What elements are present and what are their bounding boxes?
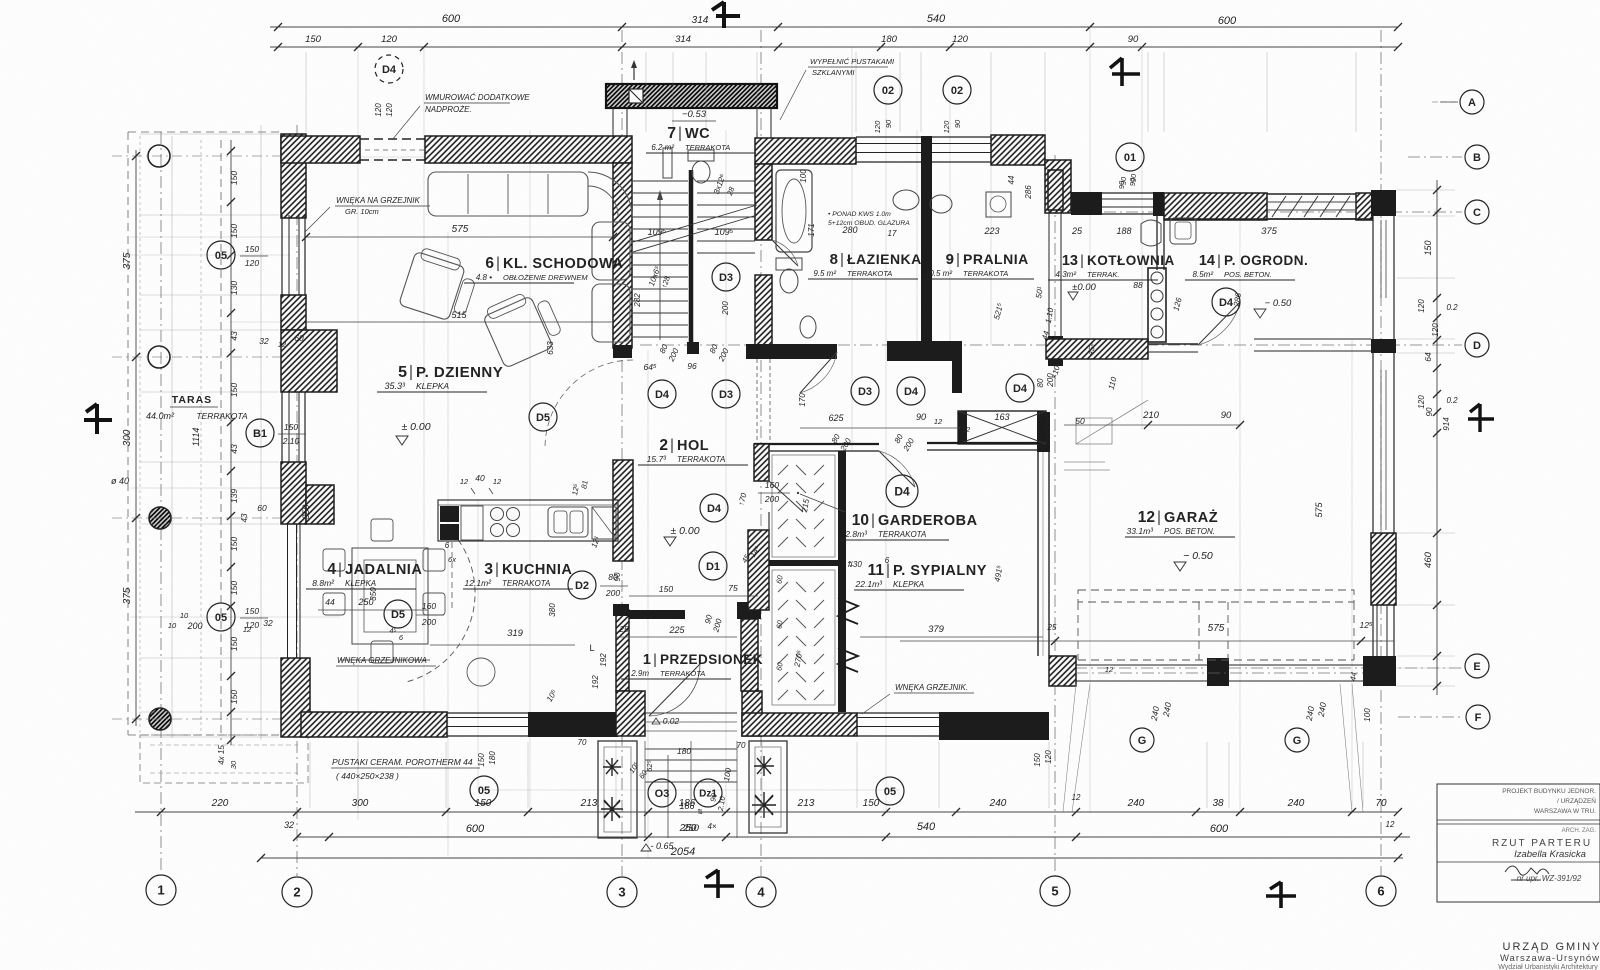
corridor-wardrobe wall east bbox=[927, 442, 1037, 444]
staircase break line bbox=[633, 205, 757, 242]
closet east wall black bbox=[838, 451, 846, 712]
grid bubble F bbox=[1466, 705, 1490, 729]
garage dashed canal bbox=[1078, 590, 1354, 602]
left wall segment bbox=[281, 295, 306, 330]
grid axis line 4 bbox=[760, 30, 762, 876]
pillar between windows bbox=[921, 136, 932, 164]
section mark 1 right bbox=[1468, 404, 1494, 432]
sofa top wall bbox=[428, 172, 588, 216]
left 05 circle lower bbox=[207, 603, 235, 631]
armchair 2 bbox=[480, 285, 566, 368]
wc toilet bbox=[688, 150, 714, 161]
wc radiator bbox=[663, 148, 672, 178]
boiler-garden dividing wall bbox=[1156, 216, 1158, 270]
closet zigzag rod 2 bbox=[838, 648, 858, 672]
kitchen black cabinets bbox=[440, 506, 459, 522]
left wall window 1 bbox=[288, 215, 290, 295]
garden room top wall bbox=[1164, 193, 1267, 220]
tag D3 hall3 bbox=[851, 377, 879, 405]
garage bottom wall west jog bbox=[1049, 656, 1076, 686]
grid axis line F bbox=[1398, 716, 1462, 718]
grid bubble E bbox=[1465, 654, 1489, 678]
living-dining opening arc bbox=[406, 532, 475, 682]
grid axis line A bbox=[1432, 101, 1458, 103]
radiator niche label line dining bbox=[340, 659, 430, 661]
staircase treads bbox=[633, 180, 688, 182]
extension stubs bottom bbox=[309, 742, 311, 808]
boiler room top window bbox=[1102, 198, 1155, 200]
bottom wall kitchen black bbox=[528, 712, 618, 737]
wall top band left bbox=[281, 136, 360, 163]
right wall faces bbox=[1372, 216, 1374, 656]
corner step to boiler room bbox=[1045, 160, 1071, 213]
tag D3 corridor bbox=[712, 263, 740, 291]
tag D4 dashed top bbox=[375, 55, 403, 83]
vestibule top wall bbox=[629, 610, 685, 619]
section mark 1 left bbox=[84, 404, 112, 434]
left outer dimension chain bbox=[135, 150, 137, 726]
extension stubs top bbox=[305, 52, 307, 132]
garage bottom wall 2 bbox=[1229, 664, 1363, 666]
garden room top window bbox=[1267, 193, 1356, 195]
tag D4 hall1 bbox=[648, 380, 676, 408]
garage bottom wall 1 bbox=[1076, 664, 1207, 666]
garage bottom pillar bbox=[1207, 658, 1229, 686]
wardrobe door D4 swing bbox=[879, 451, 915, 487]
grid bubble 2 bbox=[282, 877, 312, 907]
window top dashed (wmurowac) bbox=[360, 138, 425, 140]
grid bubble A bbox=[1460, 90, 1484, 114]
extension lines vertical bbox=[357, 47, 359, 820]
hall door D3 swing bbox=[800, 352, 837, 393]
sink laundry bbox=[930, 195, 952, 213]
tag Dz1 entrance bbox=[694, 779, 722, 807]
right dimension chain bbox=[1436, 180, 1438, 695]
dimension row top 1 bbox=[270, 26, 1398, 28]
chimney duct box with X bbox=[958, 411, 1046, 444]
tag D3 hall2 bbox=[712, 380, 740, 408]
dimension row bottom C bbox=[261, 857, 1403, 859]
steps arrow bbox=[667, 755, 669, 838]
bottom window jadalnia bbox=[447, 717, 528, 719]
dimension row bottom B bbox=[297, 836, 1410, 838]
grid bubble D bbox=[1465, 333, 1489, 357]
dim hall 675 90 bbox=[800, 427, 960, 429]
section mark bottom middle bbox=[704, 870, 734, 898]
laundry wall jog down bbox=[952, 341, 962, 393]
boiler door swing bbox=[1198, 302, 1240, 345]
wall bottom-left corner bbox=[281, 658, 310, 737]
grid bubble 6 bbox=[1366, 876, 1396, 906]
dining chairs bbox=[323, 549, 345, 571]
closet door swing bbox=[769, 481, 803, 512]
grid bubble 1 bbox=[146, 875, 176, 905]
title block frame bbox=[1437, 784, 1600, 902]
corridor dividing wall bbox=[689, 170, 694, 348]
right wall window 1 bbox=[1380, 220, 1382, 298]
armchair 1 bbox=[399, 246, 481, 325]
kitchen counter bbox=[438, 500, 618, 541]
bathroom left wall upper bbox=[755, 164, 772, 240]
wc right wall below chimney bbox=[756, 108, 758, 138]
left wall pier 1 bbox=[281, 330, 337, 392]
tag D5 living bbox=[529, 403, 557, 431]
left wall radiator niche bbox=[287, 524, 289, 658]
chimney block top bbox=[606, 84, 777, 108]
boiler flue stack bbox=[1148, 268, 1166, 342]
entrance steps bbox=[645, 748, 737, 750]
garden room top wall hatch strokes bbox=[1272, 196, 1286, 217]
bedroom bottom radiator niche bbox=[857, 717, 939, 719]
dimension row top 2 bbox=[270, 46, 1398, 48]
tag D1 bbox=[699, 552, 727, 580]
grid axis line D bbox=[640, 344, 1462, 346]
tag D5 dining bbox=[384, 600, 412, 628]
bedroom bottom wall black bbox=[939, 712, 1049, 740]
boiler room top wall black bbox=[1071, 192, 1102, 215]
section mark 4 top bbox=[712, 2, 740, 28]
dim living 575 bbox=[306, 236, 613, 238]
grid axis line E bbox=[1075, 667, 1462, 669]
garage top wall bbox=[1254, 338, 1371, 340]
sofa right side bbox=[592, 222, 630, 280]
entrance left pier bbox=[616, 691, 645, 736]
tag D4 hall4 bbox=[897, 377, 925, 405]
kitchen sink bbox=[548, 507, 588, 537]
bathroom door opening bbox=[772, 240, 798, 266]
vestibule left wall bbox=[616, 610, 629, 691]
tag 02 right bbox=[943, 76, 971, 104]
entrance door swing bbox=[649, 664, 700, 716]
kitchen fridge bbox=[592, 507, 616, 539]
tag 01 bbox=[1116, 143, 1144, 171]
dim garage bbox=[900, 640, 1394, 642]
top-right corner column bbox=[1371, 190, 1396, 216]
signature scribble bbox=[1505, 866, 1549, 880]
laundry right wall bbox=[1048, 170, 1050, 340]
scan noise overlay bbox=[0, 0, 1, 1]
closet divider bbox=[769, 560, 839, 566]
tag 05 below entrance right bbox=[876, 777, 904, 805]
bath-laundry dividing wall bbox=[921, 164, 932, 354]
grid axis line B bbox=[1408, 156, 1462, 158]
corridor-wardrobe wall west bbox=[754, 443, 879, 445]
grid axis line 6 bbox=[1380, 30, 1382, 876]
staircase walk line arrow bbox=[659, 195, 661, 340]
sofa corner arc bbox=[588, 172, 632, 216]
garden room sink bbox=[1170, 218, 1196, 244]
tag 02 left bbox=[874, 76, 902, 104]
terrace bottom dashed box bbox=[140, 735, 308, 783]
left wall window 2 bbox=[288, 392, 290, 462]
tag D4 closet door bbox=[886, 475, 918, 507]
garage right wall hatched bbox=[1371, 533, 1396, 605]
boiler room wc bbox=[1141, 220, 1161, 246]
terrace column 2 bbox=[148, 346, 170, 368]
section mark 4 upper right bbox=[1110, 58, 1140, 86]
terrace column 3 hatched bbox=[149, 507, 171, 529]
garage left wall bbox=[1037, 452, 1039, 656]
top window pralnia bbox=[932, 143, 991, 145]
closet west wall upper bbox=[754, 444, 769, 481]
grid axis line 3 bbox=[621, 30, 623, 876]
tag D4 garden bbox=[1212, 288, 1240, 316]
section mark bottom right bbox=[1266, 882, 1296, 908]
garage axis line bbox=[1076, 672, 1363, 674]
arrow above chimney bbox=[633, 64, 635, 80]
wall top-left corner bbox=[281, 134, 306, 218]
corridor wall cap bbox=[687, 342, 699, 354]
grid bubble G garage 2 bbox=[1285, 728, 1309, 752]
grid bubble 4 bbox=[746, 877, 776, 907]
laundry right wall corner bbox=[1048, 336, 1063, 366]
garage right window bbox=[1380, 370, 1382, 530]
grid bubble B bbox=[1465, 145, 1489, 169]
boiler room top corner bbox=[1153, 192, 1164, 216]
entrance planter left bbox=[598, 741, 637, 838]
bathroom left wall lower bbox=[755, 275, 772, 354]
terrace dashed edge bbox=[127, 132, 129, 735]
grid bubble G garage 1 bbox=[1130, 728, 1154, 752]
vestibule door wall jog bbox=[613, 604, 629, 616]
terrace column 4 hatched bbox=[149, 708, 171, 730]
extension stubs right bbox=[1397, 189, 1455, 191]
wc left wall below chimney bbox=[612, 108, 614, 138]
kitchen table circle bbox=[467, 658, 495, 686]
wall top band bathroom bbox=[755, 138, 856, 164]
living-hall opening arc bbox=[545, 360, 633, 448]
left 05 circle upper bbox=[207, 241, 235, 269]
left wall pier 2 step bbox=[306, 485, 334, 524]
chimney vent square bbox=[629, 89, 643, 103]
tag O3 entrance bbox=[648, 779, 676, 807]
grid bubble C bbox=[1465, 200, 1489, 224]
dining table bbox=[352, 548, 428, 644]
grid bubble 5 bbox=[1040, 876, 1070, 906]
kitchen-hall wall bbox=[613, 460, 633, 561]
closet compartment lines bbox=[768, 452, 770, 481]
garden room top wall inner edge bbox=[1164, 218, 1372, 220]
closet zigzag rod 1 bbox=[838, 598, 858, 624]
vestibule top-right corner bbox=[737, 602, 761, 619]
laundry bottom wall bbox=[887, 341, 960, 361]
extension lines horizontal bbox=[130, 236, 630, 238]
grid axis line 5 bbox=[1054, 155, 1056, 876]
dim living 515 bbox=[306, 321, 613, 323]
bathroom bottom wall bbox=[746, 344, 837, 359]
boiler room bottom wall bbox=[1046, 339, 1148, 359]
washbasin bathroom bbox=[893, 190, 919, 210]
tag D4 hall5 bbox=[1006, 374, 1034, 402]
staircase return treads bbox=[697, 180, 755, 182]
bidet bbox=[800, 316, 816, 338]
wall top band pralnia right bbox=[991, 135, 1045, 165]
staircase wall end cap bbox=[613, 345, 632, 358]
planter left plant doodle bbox=[603, 758, 621, 776]
garage diagonal guides bbox=[1063, 684, 1076, 812]
terrace horizontal axis dashes bbox=[112, 155, 285, 157]
terrace inner lines bbox=[139, 136, 141, 738]
corridor wall continuation bbox=[756, 359, 758, 444]
bathtub bbox=[776, 170, 812, 252]
entrance planter right bbox=[749, 741, 787, 833]
grid axis line C bbox=[1060, 211, 1462, 213]
boiler room boiler lines bbox=[1064, 461, 1105, 463]
grid bubble 3 bbox=[607, 877, 637, 907]
garderoba leader line bbox=[800, 494, 845, 512]
bottom band right of entrance bbox=[742, 691, 762, 736]
grid axis line 1 bbox=[160, 132, 162, 874]
wall bottom band left bbox=[301, 712, 447, 737]
wall top band to staircase bbox=[425, 136, 632, 163]
vestibule right wall bbox=[741, 619, 758, 691]
right wall block at D bbox=[1371, 339, 1396, 353]
extension stubs left bbox=[140, 133, 279, 135]
garage right wall lower bbox=[1376, 605, 1378, 656]
staircase right wall bbox=[613, 163, 632, 348]
toilet bathroom bbox=[776, 258, 802, 270]
tag 05 below entrance left bbox=[470, 776, 498, 804]
tag D4 corridor2 bbox=[700, 494, 728, 522]
entrance threshold bbox=[645, 712, 737, 714]
closet west wall lower bbox=[748, 530, 769, 610]
left inner dimension chain bbox=[230, 140, 232, 745]
garage bottom-right corner bbox=[1363, 656, 1396, 686]
grid axis line 2 bbox=[296, 125, 298, 876]
dimension row bottom A bbox=[135, 811, 1398, 813]
planter right plant doodle bbox=[754, 756, 774, 776]
washer laundry bbox=[986, 192, 1011, 217]
terrace column top bbox=[148, 145, 170, 167]
left wall segment 2 bbox=[281, 462, 306, 524]
left B1 circle bbox=[246, 419, 274, 447]
tag D2 bbox=[568, 571, 596, 599]
kitchen stove burners bbox=[491, 508, 504, 521]
boiler door threshold bbox=[1148, 343, 1198, 345]
top window bathroom bbox=[856, 143, 921, 145]
garage left wall top black bbox=[1037, 412, 1050, 452]
